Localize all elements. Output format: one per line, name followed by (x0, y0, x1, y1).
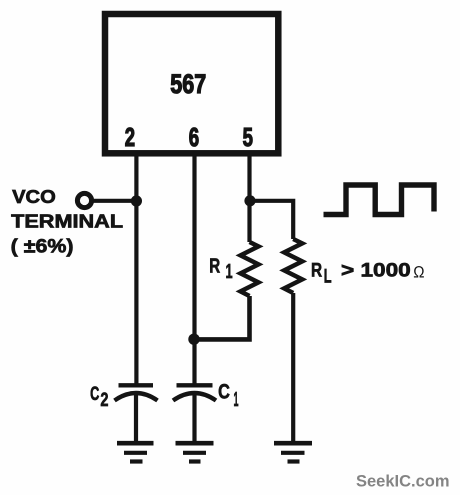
svg-text:R: R (209, 255, 220, 277)
svg-text:C: C (218, 381, 230, 404)
svg-text:2: 2 (100, 390, 108, 411)
svg-text:2: 2 (125, 122, 135, 152)
svg-text:> 1000: > 1000 (341, 261, 411, 282)
svg-text:L: L (324, 266, 332, 287)
svg-text:TERMINAL: TERMINAL (11, 212, 123, 232)
svg-text:R: R (311, 261, 322, 282)
svg-text:567: 567 (170, 69, 206, 99)
svg-text:C: C (90, 384, 99, 405)
svg-text:Ω: Ω (413, 263, 424, 282)
svg-text:1: 1 (234, 389, 239, 411)
svg-text:( ±6%): ( ±6%) (11, 237, 74, 258)
svg-text:5: 5 (243, 122, 253, 152)
svg-text:1: 1 (226, 261, 233, 283)
svg-text:VCO: VCO (12, 187, 56, 207)
svg-text:SeekIC.com: SeekIC.com (356, 472, 450, 491)
svg-text:6: 6 (189, 122, 199, 152)
